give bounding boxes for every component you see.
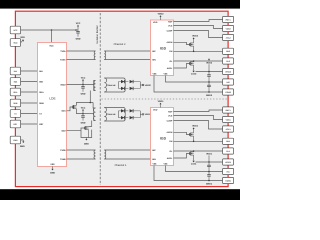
wire Q2 source to ground [88, 130, 90, 138]
wire GND connector to ground [21, 139, 23, 141]
connector pin VCE2 (right) [223, 25, 234, 31]
svg-text:TXNB: TXNB [60, 158, 66, 161]
svg-text:GND2: GND2 [206, 94, 213, 97]
svg-text:VCE: VCE [168, 114, 173, 117]
svg-text:OH1: OH1 [226, 140, 230, 143]
svg-text:GND1: GND1 [206, 183, 213, 186]
transformer T3 primary (channel 2 converter) [94, 81, 96, 91]
connector pin HI1 (right) [223, 168, 234, 174]
svg-text:VEE: VEE [152, 162, 157, 165]
connector pin GND (left) [10, 136, 20, 144]
svg-text:VCC: VCC [81, 76, 86, 79]
top black bar [0, 0, 240, 9]
IGD1 pin label OH [169, 140, 173, 143]
connector pin VCE1 (right) [223, 116, 234, 122]
wire RST to U1 [21, 123, 38, 125]
IGD2 pin label CLMP [167, 29, 173, 32]
connector pin TX (left) [10, 110, 20, 118]
isolation barrier dashed line [99, 13, 101, 185]
wire Q1 source [76, 109, 83, 114]
svg-text:GND: GND [13, 139, 18, 142]
wire Q3 source to OH2 [193, 46, 195, 52]
U1 pin label OD2 [61, 130, 66, 133]
wire SDB to U1 [21, 102, 38, 104]
transistor Q1 [72, 105, 76, 109]
wire U1 OTA to T1 [67, 50, 96, 52]
svg-text:VCE: VCE [168, 24, 173, 27]
svg-text:VDD1: VDD1 [192, 125, 199, 128]
svg-text:ACL1: ACL1 [226, 128, 231, 131]
wire U1 TPA to T2 [67, 149, 96, 151]
IGD1 pin label VDD [153, 109, 158, 112]
connector pin OL2 (right) [223, 58, 234, 64]
connector pin OH1 (right) [223, 138, 234, 144]
svg-text:OL2: OL2 [226, 60, 230, 63]
connector pin INB (left) [10, 78, 20, 86]
transistor Q1 gate wire [67, 107, 73, 111]
wire T1 to U2 INN [104, 59, 150, 61]
wire Q4 source to COM [193, 65, 195, 70]
channel 1 label [115, 164, 127, 167]
U1 pin label OD1 [61, 110, 66, 113]
connector pin VCC (left) [10, 26, 20, 34]
wire T2 to U3 INP [104, 149, 150, 151]
svg-text:CLMP: CLMP [167, 29, 173, 32]
wire AXOL to Q4 gate [174, 64, 190, 69]
IGD2 VDD supply arrow [158, 12, 165, 20]
wire Q5 source to OH1 [193, 136, 195, 142]
U1 pin label SDA [39, 91, 44, 94]
svg-text:REF1: REF1 [226, 109, 231, 112]
node VCC junction at C1 [75, 29, 78, 31]
transformer T2 primary [94, 150, 96, 159]
svg-text:HI2: HI2 [227, 81, 230, 84]
wire INA to U1 [21, 70, 38, 72]
svg-text:COM2: COM2 [191, 73, 196, 76]
svg-text:Channel 2: Channel 2 [114, 43, 126, 46]
ground symbol Q2 [84, 138, 89, 146]
op-amp U1 (LDE driver IC) [38, 43, 67, 167]
wire T3 return bus [89, 91, 91, 103]
wire Q4 drain to OL2 [193, 60, 195, 62]
IGD1 pin label OL [170, 150, 174, 153]
U1 pin label INB [39, 80, 43, 83]
wire VISO2 rail [196, 71, 223, 73]
VDD1 decoupling chain [206, 153, 213, 186]
svg-text:VEE: VEE [163, 162, 168, 165]
wire VCE to VCE1 [174, 116, 223, 120]
IGD2 pin label OH [169, 50, 173, 53]
wire to T4 top [92, 103, 95, 109]
U1 pin label VSS [50, 163, 55, 166]
svg-text:COM1: COM1 [225, 179, 230, 182]
connector pin REF1 (right) [223, 107, 234, 113]
transformer T4 primary (channel 1 converter) [93, 108, 95, 121]
wire CLMP to ACL2 [174, 31, 223, 38]
U1 pin label RST [39, 123, 44, 126]
wire REF to REF1 lower [174, 110, 223, 112]
wire VEE to COM1 [154, 166, 222, 181]
connector pin VISO2 (right) [223, 68, 234, 74]
node VISO2 terminal [142, 84, 151, 87]
svg-text:VISO1: VISO1 [225, 161, 231, 164]
wire CLMP to ACL1 [174, 121, 223, 130]
VDD2 decoupling chain [206, 58, 213, 97]
IGD2 pin label VEE a [152, 72, 157, 75]
svg-text:INA: INA [39, 70, 43, 73]
wire VCE to VCE2 [174, 26, 223, 29]
wire TX to U1 [21, 113, 38, 115]
VDD supply arrow at left connector [20, 36, 25, 43]
VDD2 supply at Q3 [192, 35, 199, 43]
svg-text:LDE: LDE [49, 97, 55, 101]
node VD2 junction [82, 84, 84, 86]
IGD1 label [160, 136, 167, 140]
connector pin OL1 (right) [223, 148, 234, 154]
IGD2 pin label VDD [153, 21, 158, 24]
connector pin OH2 (right) [223, 48, 234, 54]
svg-text:Channel 1: Channel 1 [115, 164, 127, 167]
svg-text:CLMP: CLMP [167, 119, 173, 122]
IGD1 VDD supply arrow [158, 100, 165, 108]
wire VEE to COM2 [154, 76, 222, 93]
wire U1 VSS to ground [52, 166, 54, 169]
IGD2 pin label REF [168, 20, 173, 23]
wire T1 to U2 INP [104, 50, 150, 52]
IGD1 pin label INN [152, 158, 156, 161]
isolation barrier label [96, 25, 99, 43]
wire SDA to U1 [21, 91, 38, 93]
svg-text:AXOL: AXOL [167, 157, 173, 160]
rectifier block channel 2 (CONV HB) [104, 78, 142, 92]
op-amp U2 (IGD gate driver 2) [151, 20, 174, 76]
channel 2 label [114, 43, 126, 46]
wire T2 to U3 INN [104, 158, 150, 160]
wire AXOH to Q3 gate [174, 42, 190, 44]
wire U1 TPB to T2 [67, 158, 96, 160]
svg-text:IGD: IGD [160, 136, 167, 140]
supply VCC arrow and capacitor C1 to GND [76, 22, 81, 41]
svg-text:SDB: SDB [39, 102, 44, 105]
svg-text:HI1: HI1 [227, 170, 230, 173]
wire AXOL to Q6 gate [174, 154, 190, 159]
svg-text:VDD2: VDD2 [192, 35, 199, 38]
svg-text:CONV HB: CONV HB [107, 84, 116, 87]
IGD2 label [160, 47, 167, 51]
wire Q6 source to COM [193, 155, 195, 160]
svg-text:GND: GND [20, 145, 25, 148]
svg-text:RST: RST [39, 123, 44, 126]
wire Q1 drain to T3 [76, 102, 93, 106]
svg-text:VDD: VDD [153, 109, 158, 112]
supply chain C3 [81, 106, 86, 124]
IGD1 pin label AXOL [167, 157, 173, 160]
svg-text:REF1: REF1 [226, 18, 231, 21]
wire OH1 [174, 140, 223, 142]
svg-text:VEE: VEE [152, 72, 157, 75]
connector pin SDA (left) [10, 88, 20, 96]
node chain C3 junction [82, 113, 84, 115]
IGD1 pin label AXOH [167, 131, 173, 134]
U1 pin label TXNB [60, 158, 66, 161]
svg-text:AXOL: AXOL [167, 67, 173, 70]
channel separator dashed line [102, 98, 228, 100]
svg-text:GND: GND [81, 121, 86, 124]
svg-text:SDA: SDA [39, 91, 44, 94]
svg-text:VDD2: VDD2 [206, 61, 213, 64]
svg-text:GND: GND [50, 171, 55, 174]
U1 label [49, 97, 55, 101]
svg-text:COM1: COM1 [191, 163, 196, 166]
wire T4 primary bracket [94, 108, 96, 121]
wire Q6 drain to OL1 [193, 150, 195, 152]
wire REF to REF1 [174, 20, 223, 22]
svg-text:INN: INN [152, 59, 156, 62]
transistor Q6 [190, 152, 194, 156]
transformer T2 secondary [104, 150, 106, 159]
wire C3 to T4 center tap [83, 113, 94, 115]
COM terminal Q6 [191, 161, 196, 166]
svg-text:COM2: COM2 [225, 91, 230, 94]
supply chain C2 at VD2 [81, 76, 86, 95]
wire U1 VD2 to T3 center tap [67, 83, 94, 85]
VDD1 supply at Q5 [192, 125, 199, 133]
svg-text:VCC: VCC [13, 29, 18, 32]
transistor Q3 [190, 43, 194, 47]
svg-text:GND: GND [81, 93, 86, 96]
wire VEE to HI2 [166, 76, 223, 83]
wire VEE to HI1 [166, 166, 223, 172]
wire U1 OTB to T1 [67, 59, 96, 61]
svg-text:GND: GND [84, 142, 89, 145]
svg-text:VDD: VDD [20, 36, 25, 39]
IGD1 pin label VCE [168, 114, 173, 117]
ground symbol left [20, 140, 25, 148]
svg-text:VSS: VSS [50, 163, 55, 166]
connector pin HI2 (right) [223, 79, 234, 85]
U1 pin label VDD2 [60, 83, 66, 86]
svg-text:ACL2: ACL2 [226, 36, 231, 39]
wire VCC to U1 [51, 30, 53, 43]
IGD1 pin label VEE b [163, 162, 168, 165]
transformer T1 primary [94, 51, 95, 60]
wire AXOH to Q5 gate [174, 132, 190, 134]
rectifier block channel 1 (CONV HB) [104, 108, 142, 122]
svg-text:VISO2: VISO2 [225, 70, 231, 73]
IGD1 pin label INP [152, 149, 156, 152]
connector pin RST (left) [10, 120, 20, 128]
svg-text:IGD: IGD [160, 47, 167, 51]
U1 pin label TXPA [60, 50, 66, 53]
IGD2 pin label INN [152, 59, 156, 62]
connector pin ACL2 (right) [223, 34, 234, 40]
transistor Q4 [190, 62, 194, 66]
svg-text:VCC: VCC [81, 106, 86, 109]
IGD2 pin label AXOH [167, 41, 173, 44]
svg-text:VDD1: VDD1 [158, 100, 165, 103]
svg-text:GND: GND [76, 38, 81, 41]
svg-text:INN: INN [152, 158, 156, 161]
IGD1 pin label REF [168, 110, 173, 113]
svg-text:VDD1: VDD1 [206, 153, 213, 156]
connector pin REF1 (right) [223, 16, 234, 22]
U1 pin label TXPB [60, 149, 66, 152]
IGD2 pin label AXOL [167, 67, 173, 70]
op-amp U3 (IGD gate driver 1) [151, 108, 174, 166]
svg-text:TXNA: TXNA [60, 58, 66, 61]
transistor Q5 [190, 133, 194, 137]
svg-text:OH2: OH2 [226, 50, 230, 53]
wire OL2 [174, 60, 223, 62]
svg-text:VISO2: VISO2 [145, 84, 152, 87]
IGD1 pin label VEE a [152, 162, 157, 165]
wire INB to U1 [21, 81, 38, 83]
IGD2 pin label OL [170, 60, 174, 63]
wire VISO1 rail [196, 161, 223, 163]
svg-text:VDD2: VDD2 [158, 12, 165, 15]
wire VCC rail [21, 29, 76, 31]
wire OH2 [174, 50, 223, 52]
svg-text:OL1: OL1 [226, 150, 230, 153]
wire OL1 [174, 150, 223, 152]
U1 pin label TXNA [60, 58, 66, 61]
node VISO1 terminal [142, 113, 151, 116]
IGD1 pin label CLMP [167, 119, 173, 122]
svg-text:VDD2: VDD2 [60, 83, 66, 86]
U1 pin label VCC [49, 45, 54, 48]
svg-text:INB: INB [39, 80, 43, 83]
svg-text:VCC: VCC [49, 45, 54, 48]
ground symbol U1 [50, 167, 55, 174]
U1 pin label TX [39, 112, 42, 115]
svg-text:VEE: VEE [163, 72, 168, 75]
connector pin COM2 (right) [223, 89, 234, 95]
svg-text:AXOH: AXOH [167, 41, 173, 44]
svg-text:VCE2: VCE2 [226, 27, 231, 30]
connector pin COM1 (right) [223, 177, 234, 183]
transformer T1 secondary [104, 51, 105, 60]
svg-text:VCE1: VCE1 [226, 118, 231, 121]
connector pin INA (left) [10, 67, 20, 75]
bottom black bar [0, 189, 240, 200]
svg-text:SDA: SDA [13, 91, 18, 94]
connector pin VISO1 (right) [223, 159, 234, 165]
svg-text:CONV HB: CONV HB [107, 113, 116, 116]
IGD2 pin label VCE [168, 24, 173, 27]
connector pin ACL1 (right) [223, 126, 234, 132]
svg-text:VCC: VCC [76, 22, 81, 25]
U1 pin label SDB [39, 102, 44, 105]
IGD2 pin label VEE b [163, 72, 168, 75]
svg-text:Isolation Barrier: Isolation Barrier [96, 25, 99, 43]
wire T3 primary bracket [94, 81, 96, 91]
connector pin VDD (left) [10, 39, 20, 47]
COM terminal Q4 [191, 71, 196, 76]
board outline (red frame) [15, 11, 228, 186]
svg-text:TXPB: TXPB [60, 149, 66, 152]
connector pin SDB (left) [10, 99, 20, 107]
wire Q2 loop [81, 130, 92, 138]
svg-text:SDB: SDB [13, 102, 18, 105]
transistor Q2 gate wire [67, 128, 85, 131]
U1 pin label INA [39, 70, 43, 73]
node VCC junction to U1 [51, 29, 53, 31]
IGD2 pin label INP [152, 50, 156, 53]
wire T4 return to Q2 [89, 121, 92, 127]
svg-text:TXPA: TXPA [60, 50, 66, 53]
transistor Q2 [85, 126, 89, 130]
svg-text:VDD: VDD [13, 41, 18, 44]
svg-text:VDD: VDD [153, 21, 158, 24]
svg-text:AXOH: AXOH [167, 131, 173, 134]
